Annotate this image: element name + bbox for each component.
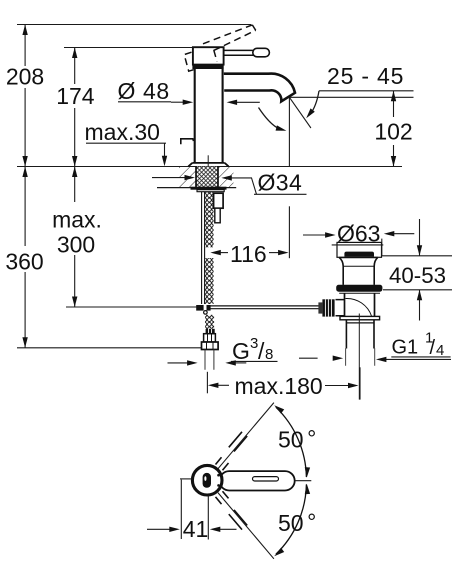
svg-text:208: 208: [6, 64, 44, 90]
svg-text:max.180: max.180: [235, 373, 323, 399]
svg-text:G: G: [232, 338, 250, 364]
svg-text:40-53: 40-53: [389, 263, 446, 288]
svg-text:Ø 48: Ø 48: [118, 78, 170, 104]
svg-text:max.: max.: [52, 207, 102, 233]
svg-text:50°: 50°: [278, 509, 316, 536]
svg-text:174: 174: [56, 83, 95, 109]
svg-text:25 - 45: 25 - 45: [327, 63, 404, 89]
svg-text:max.30: max.30: [85, 119, 160, 145]
svg-text:360: 360: [5, 249, 43, 275]
svg-text:41: 41: [183, 516, 209, 542]
svg-text:/: /: [258, 338, 265, 364]
svg-text:Ø34: Ø34: [258, 170, 303, 196]
svg-text:102: 102: [374, 119, 412, 145]
svg-text:/: /: [430, 337, 436, 359]
svg-text:8: 8: [265, 346, 273, 363]
svg-text:50°: 50°: [278, 426, 316, 453]
svg-text:G1: G1: [392, 337, 419, 359]
svg-text:Ø63: Ø63: [337, 221, 380, 247]
svg-text:116: 116: [230, 241, 267, 267]
svg-text:300: 300: [57, 232, 95, 258]
